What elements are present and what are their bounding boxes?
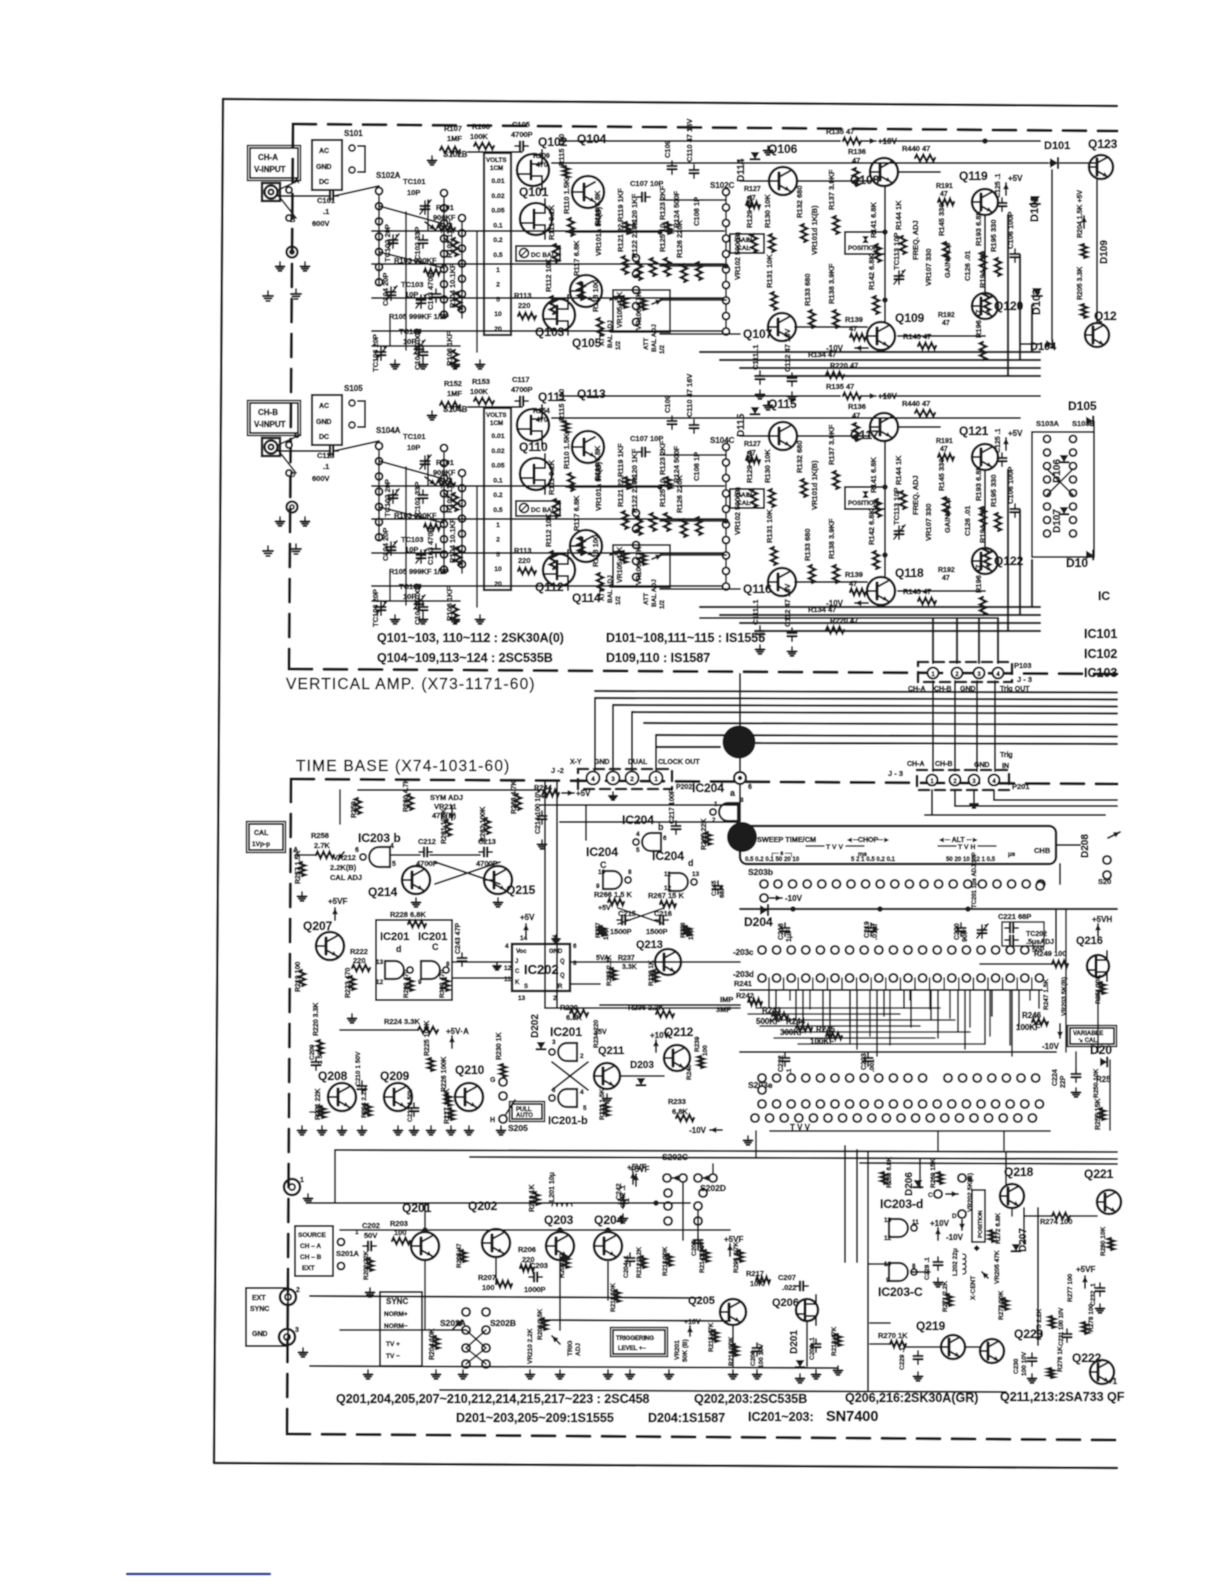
svg-text:C228 .1: C228 .1	[924, 1257, 931, 1280]
svg-text:R222: R222	[350, 947, 368, 956]
svg-text:D101~108,111~115 : IS1555: D101~108,111~115 : IS1555	[606, 631, 765, 645]
svg-text:1000P: 1000P	[524, 1285, 546, 1294]
svg-text:R119 1KF: R119 1KF	[616, 443, 625, 477]
svg-text:BAL ADJ: BAL ADJ	[607, 575, 614, 603]
svg-text:R226 100K: R226 100K	[441, 1057, 448, 1092]
svg-text:R153: R153	[472, 377, 490, 386]
svg-text:TC201 1μs ADJ 10P: TC201 1μs ADJ 10P	[972, 852, 978, 908]
svg-text:2: 2	[580, 1053, 584, 1060]
svg-text:C213: C213	[478, 837, 496, 846]
svg-text:C: C	[515, 969, 520, 975]
svg-text:5 2 1 0.5 0.2 0.1: 5 2 1 0.5 0.2 0.1	[851, 856, 896, 863]
svg-text:D101: D101	[1044, 140, 1070, 152]
svg-text:.1: .1	[323, 207, 329, 216]
svg-text:R272 6.8K: R272 6.8K	[995, 1213, 1002, 1244]
svg-text:D203: D203	[630, 1060, 654, 1071]
svg-text:C: C	[432, 942, 439, 952]
svg-text:600V: 600V	[312, 474, 330, 483]
svg-text:1CM: 1CM	[490, 165, 503, 172]
svg-text:J: J	[515, 959, 518, 965]
svg-text:R139: R139	[845, 570, 863, 579]
svg-text:+5V: +5V	[520, 913, 535, 922]
svg-text:IC204: IC204	[652, 849, 684, 863]
svg-text:CH-A: CH-A	[908, 686, 926, 693]
svg-text:R111 8.2K: R111 8.2K	[547, 204, 556, 240]
svg-text:Q204: Q204	[594, 1213, 624, 1227]
svg-text:CH – B: CH – B	[300, 1254, 322, 1261]
svg-text:AC: AC	[319, 403, 329, 410]
svg-text:L201 10μ: L201 10μ	[549, 1172, 556, 1202]
svg-text:100: 100	[482, 1283, 495, 1292]
svg-text:R138 3.9KF: R138 3.9KF	[827, 518, 836, 559]
svg-text:-203d: -203d	[733, 970, 754, 979]
svg-text:8: 8	[628, 869, 632, 876]
svg-text:VR102 500(B): VR102 500(B)	[733, 487, 742, 535]
svg-text:6: 6	[663, 835, 667, 842]
svg-text:D20: D20	[1090, 1043, 1112, 1057]
svg-text:D202: D202	[530, 1014, 541, 1038]
svg-text:b: b	[658, 822, 664, 832]
svg-text:.1: .1	[323, 462, 329, 471]
svg-text:CH-B: CH-B	[935, 761, 953, 768]
svg-text:C126 .01: C126 .01	[963, 506, 972, 536]
svg-text:Q216: Q216	[1076, 935, 1103, 947]
svg-text:2.2K(B): 2.2K(B)	[330, 863, 357, 872]
svg-text:Q106: Q106	[768, 142, 798, 156]
svg-text:1/2: 1/2	[659, 600, 666, 609]
svg-text:VOLTS: VOLTS	[486, 412, 507, 419]
svg-text:TIME BASE (X74-1031-60): TIME BASE (X74-1031-60)	[296, 758, 511, 775]
svg-text:C104 20P: C104 20P	[381, 273, 390, 306]
svg-text:C242 .1: C242 .1	[620, 1185, 627, 1208]
svg-text:1Vp-p: 1Vp-p	[252, 841, 270, 848]
svg-text:C109: C109	[663, 395, 672, 413]
svg-text:3: 3	[295, 1327, 299, 1334]
svg-text:C231 100 10V: C231 100 10V	[1059, 1308, 1065, 1346]
svg-text:220: 220	[518, 556, 531, 565]
svg-text:11: 11	[664, 871, 671, 878]
svg-text:-10V: -10V	[946, 1233, 964, 1242]
svg-text:V-INPUT: V-INPUT	[254, 420, 286, 429]
svg-text:2: 2	[496, 537, 500, 544]
svg-text:◄─ ALT ─►: ◄─ ALT ─►	[938, 837, 979, 844]
svg-text:Q105: Q105	[572, 336, 602, 350]
svg-text:R196 47: R196 47	[974, 310, 983, 338]
svg-text:R117 6.8K: R117 6.8K	[572, 495, 581, 531]
svg-text:T V H: T V H	[958, 844, 975, 851]
svg-text:CH-B: CH-B	[258, 408, 278, 417]
svg-text:S: S	[524, 984, 528, 990]
svg-text:μs: μs	[1008, 851, 1016, 858]
svg-text:R116 6.8K: R116 6.8K	[593, 190, 602, 226]
svg-text:9: 9	[886, 1277, 890, 1284]
svg-text:IC201: IC201	[380, 931, 409, 943]
svg-text:R132 680: R132 680	[795, 440, 804, 473]
svg-text:VR107 330: VR107 330	[924, 248, 933, 286]
svg-text:X-Y: X-Y	[570, 759, 582, 766]
svg-text:100 10V: 100 10V	[1021, 1351, 1028, 1376]
svg-text:D201~203,205~209:1S1555: D201~203,205~209:1S1555	[456, 1411, 614, 1425]
svg-text:ATT: ATT	[643, 593, 650, 605]
svg-text:VR212: VR212	[333, 853, 356, 862]
svg-text:R112 10K: R112 10K	[544, 513, 553, 547]
svg-text:R117 6.8K: R117 6.8K	[572, 240, 581, 276]
svg-text:0.05: 0.05	[491, 463, 504, 470]
svg-text:D: D	[952, 1213, 957, 1220]
svg-text:IC201: IC201	[550, 1025, 582, 1039]
svg-text:SOURCE: SOURCE	[298, 1232, 326, 1239]
svg-text:IC204: IC204	[622, 813, 654, 827]
svg-text:+5VF: +5VF	[328, 897, 347, 906]
svg-text:+1: +1	[1108, 1377, 1118, 1386]
svg-text:TRIG: TRIG	[567, 1340, 574, 1356]
svg-text:C109: C109	[663, 140, 672, 158]
svg-text:3: 3	[611, 776, 615, 783]
svg-text:R130 10K: R130 10K	[763, 449, 772, 483]
svg-text:SN7400: SN7400	[826, 1409, 878, 1425]
svg-text:Trig: Trig	[1000, 752, 1013, 759]
svg-text:VR210 2.2K: VR210 2.2K	[527, 1328, 534, 1364]
svg-text:Q206,216:2SK30A(GR): Q206,216:2SK30A(GR)	[845, 1391, 978, 1405]
svg-text:R108: R108	[472, 122, 490, 131]
svg-text:R206: R206	[518, 1245, 536, 1254]
svg-text:D114: D114	[736, 158, 747, 182]
svg-text:.022: .022	[782, 1283, 797, 1292]
svg-text:1: 1	[300, 1177, 304, 1184]
svg-text:0.1: 0.1	[493, 222, 503, 229]
svg-text:5: 5	[496, 551, 500, 558]
svg-text:D204:1S1587: D204:1S1587	[648, 1411, 725, 1425]
svg-text:TC103: TC103	[401, 280, 424, 289]
svg-text:C108 1P: C108 1P	[692, 197, 701, 226]
svg-text:+5V: +5V	[576, 789, 591, 798]
svg-text:6.8K: 6.8K	[672, 1107, 688, 1116]
svg-text:R193 6.8K: R193 6.8K	[974, 210, 983, 246]
svg-text:R191: R191	[936, 438, 953, 445]
svg-text:CAL: CAL	[254, 830, 269, 837]
svg-text:C103 470P: C103 470P	[426, 527, 435, 565]
svg-text:S104C: S104C	[710, 436, 735, 445]
svg-text:d: d	[396, 944, 402, 954]
svg-text:+5V: +5V	[594, 1029, 607, 1036]
svg-text:3: 3	[552, 1039, 556, 1046]
svg-text:R440 47: R440 47	[902, 399, 930, 408]
svg-text:R152: R152	[444, 379, 462, 388]
svg-text:6: 6	[748, 784, 752, 791]
svg-text:C: C	[928, 1192, 933, 1199]
svg-text:TRIGGERING: TRIGGERING	[616, 1336, 654, 1342]
svg-text:VR101d 1K(B): VR101d 1K(B)	[810, 460, 819, 510]
svg-text:R440 47: R440 47	[902, 144, 930, 153]
svg-text:Q123: Q123	[1088, 137, 1118, 151]
svg-text:1500P: 1500P	[610, 927, 632, 936]
svg-text:R242: R242	[736, 991, 754, 1000]
svg-text:R278 100: R278 100	[1088, 1303, 1095, 1332]
svg-text:R225 100K: R225 100K	[424, 1021, 431, 1056]
svg-text:R127: R127	[744, 441, 761, 448]
svg-text:Q206: Q206	[772, 1297, 799, 1309]
svg-text:R131 10K: R131 10K	[765, 509, 774, 543]
svg-text:R106 1KF: R106 1KF	[445, 586, 454, 621]
svg-text:POSITION: POSITION	[978, 1210, 984, 1238]
svg-text:R118 100: R118 100	[591, 280, 600, 312]
svg-text:Q110: Q110	[519, 440, 548, 454]
svg-text:G: G	[490, 1077, 496, 1084]
svg-text:8: 8	[573, 960, 577, 967]
svg-text:D109,110 : IS1587: D109,110 : IS1587	[606, 651, 710, 665]
svg-text:S205: S205	[508, 1123, 528, 1133]
svg-text:R137 3.9KF: R137 3.9KF	[827, 169, 836, 210]
svg-text:+5VF: +5VF	[724, 1235, 743, 1244]
svg-text:Q218: Q218	[1004, 1165, 1034, 1179]
svg-text:R115 100: R115 100	[557, 134, 566, 166]
svg-text:R258: R258	[311, 831, 329, 840]
svg-text:TC101: TC101	[403, 432, 426, 441]
svg-text:C125 .1: C125 .1	[995, 173, 1002, 198]
svg-text:13: 13	[692, 871, 700, 878]
svg-text:C126 .01: C126 .01	[963, 251, 972, 281]
svg-text:10: 10	[494, 566, 502, 573]
svg-text:R110 1.5K: R110 1.5K	[562, 433, 571, 469]
svg-text:VR101d 1K(B): VR101d 1K(B)	[810, 205, 819, 255]
svg-text:◄─CHOP─►: ◄─CHOP─►	[846, 837, 890, 844]
svg-text:Q121: Q121	[959, 424, 989, 438]
svg-text:AUTO: AUTO	[516, 1113, 533, 1119]
svg-text:R192: R192	[938, 312, 955, 319]
svg-text:Q115: Q115	[768, 397, 797, 411]
svg-text:R145 330: R145 330	[937, 203, 946, 236]
svg-text:CH – A: CH – A	[300, 1243, 321, 1250]
svg-text:TC103: TC103	[401, 535, 424, 544]
svg-text:D204: D204	[744, 915, 773, 929]
svg-text:TV −: TV −	[386, 1353, 400, 1360]
svg-text:Q109: Q109	[895, 311, 925, 325]
svg-text:Q104~109,113~124 : 2SC535B: Q104~109,113~124 : 2SC535B	[377, 651, 553, 665]
svg-text:H: H	[490, 1117, 495, 1124]
svg-text:R101: R101	[436, 203, 454, 212]
svg-text:Q210: Q210	[455, 1063, 485, 1077]
svg-text:2: 2	[296, 1287, 300, 1294]
svg-text:D208: D208	[1080, 834, 1091, 858]
svg-text:R277 100: R277 100	[1067, 1273, 1074, 1302]
svg-text:D105: D105	[1068, 399, 1097, 413]
svg-text:CH-A: CH-A	[907, 761, 925, 768]
svg-text:S102C: S102C	[710, 181, 735, 190]
svg-text:R132 680: R132 680	[795, 185, 804, 218]
svg-text:R129 180: R129 180	[745, 450, 754, 483]
svg-text:IC202: IC202	[524, 962, 559, 977]
svg-text:D107: D107	[1052, 509, 1063, 533]
svg-text:R240: R240	[686, 1064, 693, 1080]
svg-text:J -2: J -2	[551, 766, 564, 775]
svg-text:1CM: 1CM	[490, 420, 503, 427]
svg-text:C202: C202	[362, 1221, 380, 1230]
svg-text:Q211,213:2SA733 QF: Q211,213:2SA733 QF	[1000, 1390, 1125, 1404]
svg-text:D109: D109	[1099, 240, 1110, 264]
svg-text:IC102: IC102	[1084, 647, 1117, 661]
svg-text:R133 680: R133 680	[803, 528, 812, 561]
svg-text:D201: D201	[789, 1330, 800, 1354]
svg-text:0.02: 0.02	[491, 448, 504, 455]
svg-text:10: 10	[494, 311, 502, 318]
svg-text:68P: 68P	[719, 886, 726, 898]
svg-text:Q: Q	[560, 959, 565, 965]
svg-text:GND: GND	[974, 762, 990, 769]
svg-text:R133 680: R133 680	[803, 273, 812, 306]
svg-text:SYNC: SYNC	[386, 1297, 408, 1306]
svg-text:+5V: +5V	[1008, 429, 1023, 438]
svg-text:R276 1K: R276 1K	[1057, 1346, 1064, 1372]
svg-text:R205 3.3K: R205 3.3K	[1077, 267, 1084, 300]
svg-text:R195 330: R195 330	[989, 219, 998, 252]
svg-text:C221 68P: C221 68P	[998, 912, 1031, 921]
svg-text:R233: R233	[668, 1097, 686, 1106]
svg-text:C108 1P: C108 1P	[692, 452, 701, 481]
svg-text:GND: GND	[252, 1331, 268, 1338]
svg-text:R105 999KF 1/2P: R105 999KF 1/2P	[389, 567, 449, 576]
svg-text:C214 100 10V: C214 100 10V	[535, 789, 542, 834]
svg-text:2: 2	[553, 995, 557, 1002]
svg-text:9: 9	[418, 979, 422, 986]
svg-text:R241: R241	[734, 979, 752, 988]
svg-text:S203b: S203b	[748, 867, 773, 877]
svg-text:100: 100	[702, 1045, 709, 1056]
svg-text:Q114: Q114	[572, 591, 601, 605]
svg-text:R230 1K: R230 1K	[496, 1032, 503, 1060]
svg-text:11: 11	[504, 976, 511, 983]
svg-text:EXT: EXT	[252, 1295, 266, 1302]
svg-text:Q: Q	[560, 973, 565, 979]
svg-text:10: 10	[598, 869, 606, 876]
svg-text:S20: S20	[1098, 877, 1111, 886]
svg-text:Q202,203:2SC535B: Q202,203:2SC535B	[694, 1392, 807, 1406]
svg-text:+5VH: +5VH	[1092, 915, 1112, 924]
svg-text:5VA: 5VA	[596, 955, 609, 962]
svg-text:R250 10K: R250 10K	[1093, 1068, 1100, 1098]
svg-text:R110 1.5K: R110 1.5K	[562, 178, 571, 214]
svg-text:R137 3.9KF: R137 3.9KF	[827, 424, 836, 465]
svg-text:13: 13	[376, 959, 384, 966]
svg-text:GND: GND	[960, 686, 976, 693]
svg-text:ADJ: ADJ	[575, 1343, 582, 1356]
svg-text:Q203: Q203	[544, 1213, 574, 1227]
svg-text:5: 5	[583, 1105, 587, 1112]
svg-text:Q208: Q208	[318, 1069, 348, 1083]
svg-text:R131 10K: R131 10K	[765, 254, 774, 288]
svg-text:R123 2KF: R123 2KF	[658, 185, 667, 220]
svg-text:C232 .1: C232 .1	[1090, 1283, 1097, 1306]
svg-text:R193 6.8K: R193 6.8K	[974, 465, 983, 501]
svg-text:R145 330: R145 330	[937, 458, 946, 491]
svg-text:+5VF: +5VF	[630, 1165, 649, 1174]
svg-text:47: 47	[942, 575, 950, 582]
svg-text:S101: S101	[344, 129, 363, 138]
svg-text:4: 4	[580, 1089, 584, 1096]
svg-text:+5VF: +5VF	[1076, 1265, 1095, 1274]
svg-text:R107: R107	[444, 124, 462, 133]
svg-text:R129 180: R129 180	[745, 195, 754, 228]
svg-text:R126 220K: R126 220K	[675, 474, 684, 513]
svg-text:R136: R136	[848, 147, 866, 156]
svg-text:IC201-b: IC201-b	[548, 1115, 588, 1127]
svg-text:CH-A: CH-A	[258, 153, 278, 162]
svg-text:6: 6	[355, 847, 359, 854]
svg-text:R247 1.5K: R247 1.5K	[1043, 979, 1050, 1010]
svg-text:8: 8	[446, 961, 450, 968]
svg-text:C113: C113	[317, 451, 335, 460]
svg-text:8: 8	[912, 1263, 916, 1270]
svg-text:FREQ. ADJ: FREQ. ADJ	[911, 220, 920, 260]
svg-text:R237: R237	[618, 955, 635, 962]
svg-text:EXT: EXT	[302, 1265, 315, 1272]
svg-text:4700P: 4700P	[511, 130, 533, 139]
svg-text:R275 2.2K: R275 2.2K	[1036, 1309, 1043, 1340]
svg-text:◆: ◆	[973, 1245, 980, 1252]
svg-text:C230: C230	[1013, 1358, 1020, 1374]
svg-text:220: 220	[518, 301, 531, 310]
svg-text:R267 15 K: R267 15 K	[648, 891, 684, 900]
svg-text:P201: P201	[1012, 782, 1030, 791]
svg-text:12: 12	[376, 979, 384, 986]
svg-text:IC201~203:: IC201~203:	[748, 1410, 814, 1424]
svg-text:100K: 100K	[470, 132, 489, 141]
svg-text:LEVEL +−: LEVEL +−	[618, 1346, 646, 1352]
svg-text:+5V: +5V	[1008, 174, 1023, 183]
svg-text:R141 6.8K: R141 6.8K	[869, 202, 878, 238]
svg-text:IC203-C: IC203-C	[878, 1285, 923, 1299]
svg-text:VR202 5K(B): VR202 5K(B)	[967, 1173, 974, 1212]
svg-text:R207: R207	[478, 1273, 496, 1282]
svg-text:0.5 0.2 0.1 50 20 10: 0.5 0.2 0.1 50 20 10	[745, 856, 800, 863]
svg-text:P202: P202	[676, 784, 692, 791]
svg-text:20: 20	[494, 326, 502, 333]
svg-text:S105: S105	[344, 384, 363, 393]
svg-text:C211 1 50V: C211 1 50V	[407, 1087, 414, 1122]
svg-text:-203c: -203c	[733, 948, 754, 957]
svg-text:47: 47	[849, 579, 857, 588]
svg-text:IC203-d: IC203-d	[880, 1197, 923, 1211]
svg-text:0.01: 0.01	[491, 433, 504, 440]
svg-text:Q101~103, 110~112 : 2SK30A(0): Q101~103, 110~112 : 2SK30A(0)	[377, 631, 564, 645]
svg-text:R113: R113	[514, 546, 532, 555]
svg-text:6: 6	[573, 943, 577, 950]
svg-text:VOLTS: VOLTS	[486, 157, 507, 164]
svg-text:R130 10K: R130 10K	[763, 194, 772, 228]
svg-text:22P: 22P	[1060, 1075, 1067, 1088]
svg-text:C125 .1: C125 .1	[995, 428, 1002, 453]
svg-text:CAL ADJ: CAL ADJ	[330, 873, 362, 882]
svg-text:R144 1K: R144 1K	[894, 200, 903, 230]
svg-text:C219: C219	[864, 921, 871, 938]
svg-text:Q221: Q221	[1084, 1167, 1114, 1181]
svg-text:GND: GND	[316, 164, 332, 171]
svg-text:VR107 330: VR107 330	[924, 503, 933, 541]
svg-text:R135 47: R135 47	[826, 382, 854, 391]
svg-text:C112 47 16V: C112 47 16V	[783, 329, 792, 372]
svg-text:1: 1	[496, 267, 500, 274]
svg-text:C229 .1: C229 .1	[899, 1347, 906, 1370]
svg-text:D115: D115	[736, 413, 747, 437]
svg-text:5: 5	[496, 296, 500, 303]
svg-text:Q205: Q205	[688, 1295, 715, 1307]
svg-text:C243 47P: C243 47P	[455, 923, 462, 954]
svg-text:1MF: 1MF	[447, 134, 462, 143]
svg-text:-10V: -10V	[785, 894, 803, 903]
svg-text:R249 100: R249 100	[1034, 949, 1067, 958]
svg-text:R127: R127	[744, 186, 761, 193]
svg-text:C203: C203	[530, 1261, 548, 1270]
svg-text:1: 1	[496, 522, 500, 529]
